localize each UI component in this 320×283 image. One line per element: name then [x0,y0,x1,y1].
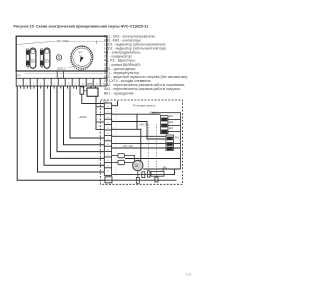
bottom wires inside dashed box [105,169,177,183]
wire link down [136,114,138,129]
svg-text:СЕТЬ: СЕТЬ [87,84,93,86]
svg-text:ЕК1: ЕК1 [169,116,174,118]
raised box above strip [57,71,63,78]
svg-text:LED1,2: LED1,2 [57,66,66,70]
svg-text:ЕК1.1: ЕК1.1 [175,137,182,139]
wires inside dashed box from column to right [112,101,181,169]
svg-text:~400V: ~400V [78,115,87,119]
svg-text:3.3: 3.3 [107,155,109,157]
wire to motor M1 [112,129,141,161]
legend text [104,34,188,95]
wire sensor loop [143,168,180,170]
svg-text:4.2: 4.2 [107,166,109,168]
svg-text:3.2: 3.2 [107,149,109,151]
svg-text:ЕК3: ЕК3 [169,128,174,130]
wire to KM1.2 contacts [112,113,161,115]
svg-text:КМ1.2: КМ1.2 [150,112,158,115]
PE terminal box on bottom wire [105,177,112,183]
svg-text:3.1: 3.1 [107,144,109,146]
svg-text:2.2: 2.2 [107,133,109,135]
wire to KM2.2 contacts [112,122,166,140]
svg-text:Тепловая панель: Тепловая панель [133,104,156,108]
svg-text:Рисунок 20. Схема электрическа: Рисунок 20. Схема электрическая принципи… [14,25,149,29]
button ST (small circle) [56,55,61,60]
motor M1 [133,160,143,177]
knob pair 2 (limiter slider + knob) [40,48,50,69]
wire L1 [38,86,105,172]
wire PE: XT1 pin1 to XT3 bottom [17,86,105,180]
timer dial [70,45,93,71]
strip terminal numbers [19,83,105,85]
wire to heater group B [112,135,166,137]
svg-text:ВК1 - термодатчик.: ВК1 - термодатчик. [104,91,134,95]
terminal column XT3 [104,103,111,175]
wire control 1 [64,86,105,145]
wire control 2 [70,86,104,138]
knob pair 1 (thermostat slider + knob) [26,48,36,69]
wire L2 [44,86,104,165]
small boxes SA (two stacked) [112,153,135,164]
wire bus 3 [125,158,181,160]
svg-text:М: М [135,164,138,168]
svg-text:2.1: 2.1 [107,128,109,130]
svg-text:1.2: 1.2 [107,117,109,119]
svg-text:КМ2.2: КМ2.2 [140,124,148,127]
junction dots [95,106,175,175]
svg-text:1.3: 1.3 [107,122,109,124]
svg-text:ХТ1: ХТ1 [15,74,21,77]
svg-text:4.1: 4.1 [107,160,109,162]
wire L3 [51,86,105,158]
dashed verticals (capillary links) [148,124,156,177]
faint inner vertical line [115,101,117,183]
svg-text:~М1 - М4: ~М1 - М4 [122,145,133,148]
wire bus 2 [112,147,181,149]
stubs from x96 vertical into column [96,107,104,130]
svg-text:1.1: 1.1 [107,112,109,114]
plug/relay boxes under strip right [80,86,104,130]
sensor BK1 box [147,169,164,182]
contact group B [166,135,182,150]
dashed box (heating panel) [100,100,182,184]
wire N [57,86,104,152]
svg-text:2.3: 2.3 [107,139,109,141]
control panel box [16,36,107,78]
panel diagonal decor line [17,41,55,44]
unused terminal stubs [21,86,84,89]
svg-text:4.3: 4.3 [107,171,109,173]
terminal strip XT1 [16,78,107,86]
terminal column cell marks [107,106,111,182]
wires: drops from strip + nested corners to column [17,86,105,180]
contact group A with heaters EK1-EK3 [161,116,181,134]
svg-text:ВК1: ВК1 [163,166,168,169]
wire bus 1 [112,143,181,145]
svg-text:ЕК2: ЕК2 [169,122,174,124]
wire from XT3 terminal 1 up [112,101,118,106]
wire number marks right of column [112,104,113,136]
inner solid box (heater block) [152,113,181,169]
svg-text:173: 173 [185,273,191,277]
